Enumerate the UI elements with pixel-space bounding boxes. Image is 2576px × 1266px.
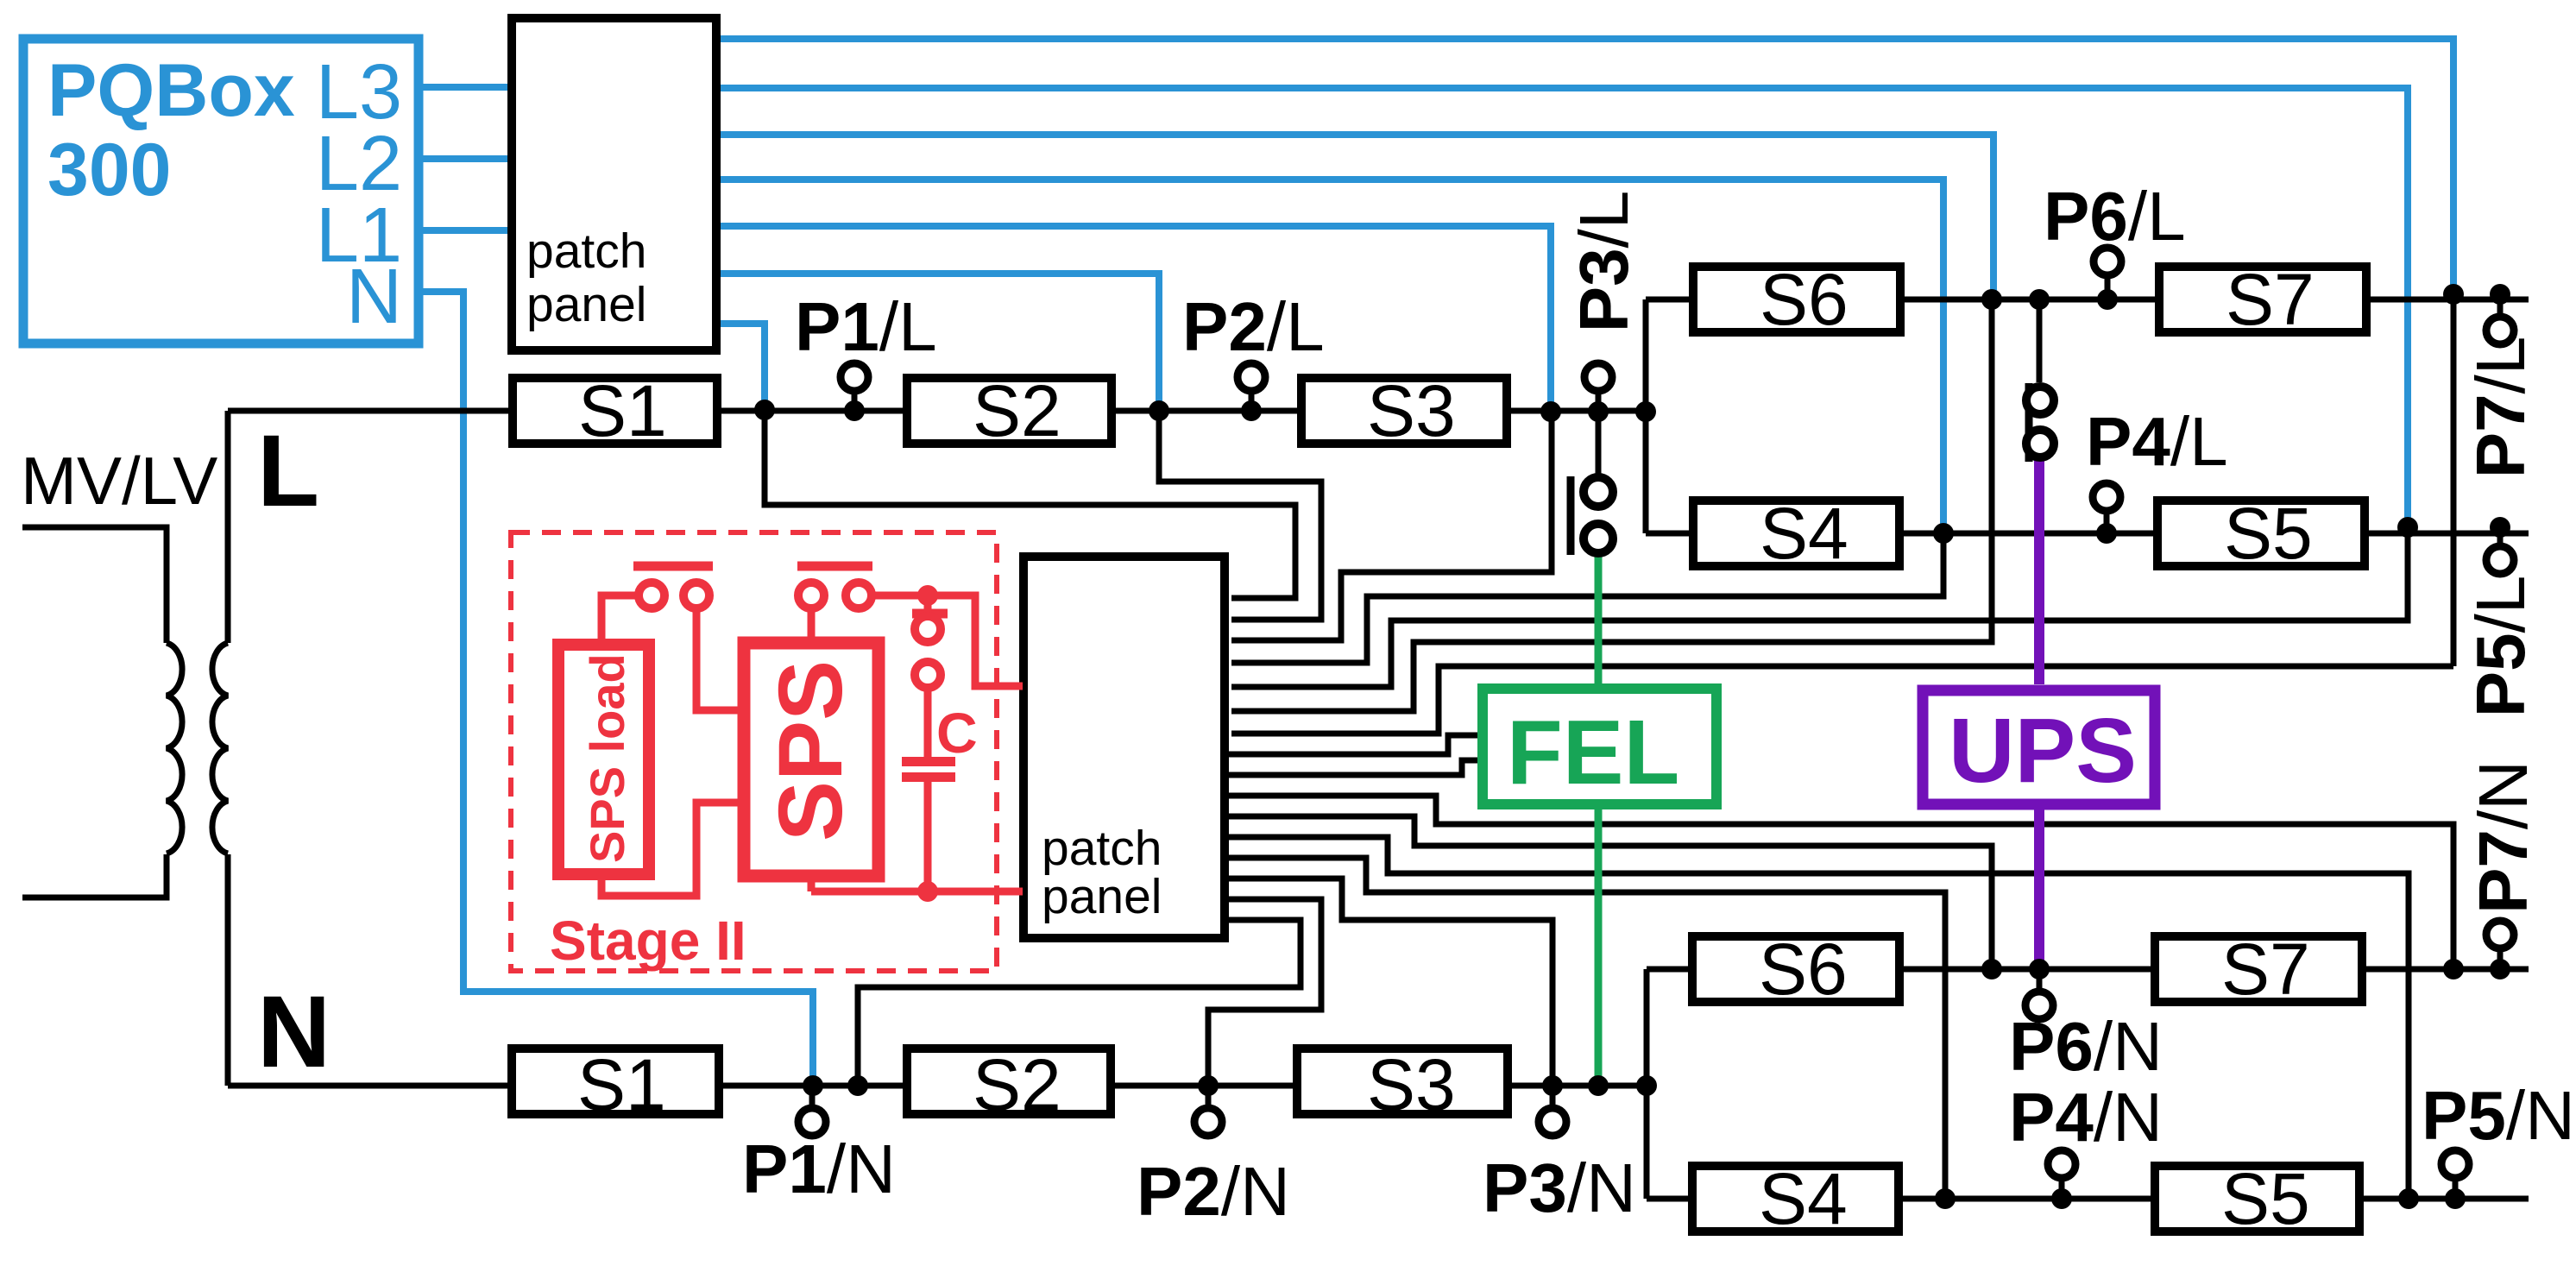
svg-text:N: N (257, 975, 331, 1089)
svg-text:L: L (257, 414, 319, 528)
svg-text:patch: patch (526, 224, 646, 279)
svg-text:S6: S6 (1759, 929, 1848, 1010)
svg-text:MV/LV: MV/LV (21, 443, 217, 519)
svg-text:FEL: FEL (1507, 702, 1679, 803)
svg-text:S7: S7 (2221, 929, 2310, 1010)
svg-text:SPS: SPS (760, 660, 861, 841)
svg-text:SPS load: SPS load (580, 653, 634, 863)
svg-text:P3/L: P3/L (1565, 191, 1642, 333)
svg-text:S3: S3 (1367, 370, 1456, 451)
svg-text:PQBox: PQBox (47, 49, 295, 132)
svg-text:S4: S4 (1760, 493, 1849, 574)
svg-text:P1/L: P1/L (795, 288, 937, 365)
svg-text:P7/N: P7/N (2465, 760, 2541, 914)
svg-text:P4/L: P4/L (2086, 403, 2228, 480)
svg-text:S2: S2 (973, 1044, 1061, 1125)
svg-text:S7: S7 (2226, 259, 2315, 340)
svg-text:P3/N: P3/N (1483, 1149, 1636, 1226)
svg-text:S4: S4 (1759, 1158, 1848, 1239)
svg-text:P6/L: P6/L (2044, 178, 2186, 255)
svg-text:C: C (936, 701, 978, 765)
svg-text:S5: S5 (2221, 1158, 2310, 1239)
svg-text:N: N (346, 254, 402, 340)
svg-text:panel: panel (1042, 869, 1162, 924)
svg-text:S6: S6 (1760, 259, 1849, 340)
svg-text:300: 300 (47, 129, 172, 211)
svg-text:P2/L: P2/L (1182, 288, 1325, 365)
svg-text:S5: S5 (2224, 493, 2313, 574)
svg-text:P7/L: P7/L (2462, 337, 2539, 479)
svg-text:P2/N: P2/N (1137, 1153, 1290, 1230)
svg-text:P5/L: P5/L (2462, 576, 2539, 718)
svg-text:S3: S3 (1367, 1044, 1456, 1125)
svg-text:Stage II: Stage II (550, 910, 746, 972)
svg-text:P6/N: P6/N (2009, 1008, 2163, 1085)
svg-text:P4/N: P4/N (2009, 1079, 2163, 1156)
svg-text:P5/N: P5/N (2422, 1077, 2575, 1154)
svg-text:S1: S1 (577, 1044, 666, 1125)
svg-text:P1/N: P1/N (742, 1131, 896, 1207)
svg-text:patch: patch (1042, 821, 1162, 876)
svg-text:UPS: UPS (1949, 700, 2137, 802)
svg-text:S1: S1 (578, 370, 667, 451)
svg-text:S2: S2 (973, 370, 1061, 451)
svg-text:panel: panel (526, 277, 646, 332)
